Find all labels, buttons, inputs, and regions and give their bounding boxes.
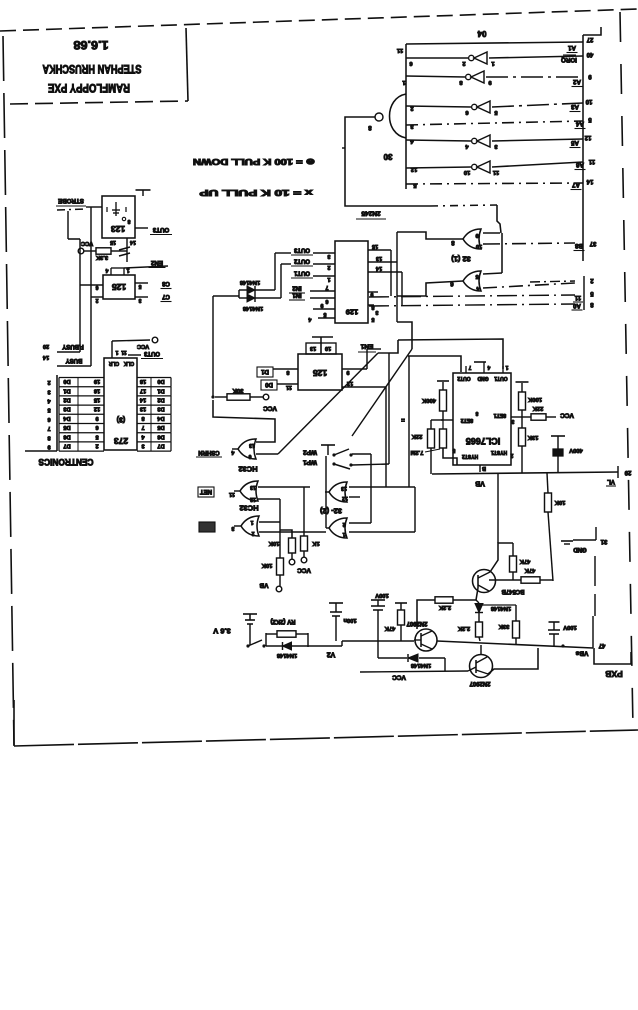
svg-text:RAMFLOPPY PXE: RAMFLOPPY PXE [48,81,130,93]
svg-text:14: 14 [130,239,136,245]
svg-text:2.2K: 2.2K [438,604,451,610]
svg-text:2: 2 [510,452,513,458]
wire 7.2M bottom to HYST2 [443,448,457,465]
svg-text:47K: 47K [524,567,535,573]
inverter U1-2 7404 [466,74,471,79]
svg-text:OUT2: OUT2 [457,375,471,381]
capacitor 100V mid [371,599,385,601]
title block frame [186,28,188,101]
IC U11 273 latch [104,358,137,450]
svg-text:(3): (3) [117,415,126,422]
wire U5c bottom input [259,531,326,533]
svg-text:A3: A3 [570,103,578,110]
U6 right rows [342,368,367,370]
svg-text:STEPHAN HRUSCHKA: STEPHAN HRUSCHKA [43,62,142,74]
svg-text:CSHRN: CSHRN [198,449,219,455]
wire U5b top input [258,486,310,488]
svg-text:27: 27 [586,36,593,42]
svg-text:2: 2 [327,264,330,270]
resistor 100K (SET1) [511,416,522,418]
vertical wire x80 [79,239,81,352]
resistor 47K collector [490,543,513,572]
wire pin37 B8 row to gate 32(1) input [486,243,575,244]
svg-text:D5: D5 [157,424,164,430]
svg-text:OUT3: OUT3 [152,226,169,233]
svg-text:A1: A1 [567,44,575,51]
connector stub rows right [583,276,585,310]
U6 top pin boxes [306,343,321,354]
IC U10 125 [103,275,135,299]
wire OUT1 of ICL7665 [398,339,503,369]
svg-text:400V: 400V [569,447,583,453]
svg-text:D1: D1 [63,387,70,393]
svg-text:20: 20 [43,343,49,349]
svg-text:D6: D6 [157,433,164,439]
svg-text:D3: D3 [157,406,164,412]
vertical wire OUT2 to 32-(2) inputs [408,356,410,487]
svg-text:1N4148: 1N4148 [276,652,297,658]
svg-text:273: 273 [114,436,128,446]
svg-text:D2: D2 [63,396,70,402]
svg-text:12: 12 [342,495,348,501]
svg-text:SET2: SET2 [461,417,474,423]
svg-text:1: 1 [250,519,253,525]
svg-text:x = 10 K PULL UP: x = 10 K PULL UP [199,188,313,197]
IC U9 123 monostable [102,196,135,238]
svg-text:47K: 47K [384,625,395,631]
svg-text:14: 14 [586,178,593,184]
svg-text:1: 1 [342,531,345,537]
svg-text:D4: D4 [157,415,165,421]
resistor 33K [480,604,516,606]
svg-text:CENTRONICS: CENTRONICS [39,457,94,467]
wire gate U3b output [397,281,463,296]
OR gate U3a 74HC32 (32 (1)) [463,229,481,249]
timing cap marks [119,247,130,250]
svg-text:3.3K: 3.3K [95,254,108,260]
main rail V2 [342,640,414,642]
svg-text:D7: D7 [157,442,164,448]
svg-text:30K: 30K [232,387,244,393]
IC U8 ICL7665 [453,373,511,465]
svg-text:3: 3 [375,309,378,315]
svg-text:D6: D6 [63,433,70,439]
svg-text:1N4148: 1N4148 [490,605,511,611]
wire CLK to OUT3 [128,354,141,356]
svg-text:A5: A5 [570,139,578,146]
wire base resistor to vertical [540,579,553,581]
svg-text:47: 47 [598,642,605,648]
wire U5a lower input to diagonal [256,453,278,455]
svg-text:2: 2 [95,442,98,448]
svg-text:9: 9 [320,302,323,308]
OR gate U7b 32-(2) [329,518,347,538]
svg-text:100V: 100V [563,624,577,630]
svg-text:HC32: HC32 [239,503,258,512]
svg-text:3: 3 [327,253,330,259]
svg-text:13: 13 [250,484,256,490]
svg-text:D5: D5 [63,424,70,430]
wire diode D1 to OUT3 row [274,253,276,290]
svg-text:2N245: 2N245 [361,210,381,217]
capacitor 400V [551,435,565,437]
svg-text:3: 3 [141,442,144,448]
resistor 7.2M [440,429,447,448]
resistor 30K [211,395,214,398]
resistor R 10K to VB [277,558,284,575]
diode D5 1N4148 [283,642,292,650]
OR gate U5c HC32 (WR) [241,516,259,536]
resistor 13K [519,428,526,446]
connector VBs pin 47 [592,616,594,648]
wire CLR to VCC [111,341,113,358]
trimmer RV (2K2) [266,633,277,635]
svg-text:BC547B: BC547B [501,588,525,594]
wire U7b top input [349,522,371,524]
ground tee above U8 [474,361,486,363]
svg-text:8: 8 [286,369,289,375]
svg-text:A0: A0 [573,302,581,308]
svg-text:VCC: VCC [136,343,149,349]
wire diodes common left [238,290,240,298]
wire tick [342,147,345,149]
svg-text:10K: 10K [261,562,272,568]
svg-text:8: 8 [475,410,478,416]
U4 lower-left pins [313,308,335,310]
wire U7a top input [349,486,415,488]
svg-text:19: 19 [94,378,100,384]
svg-text:RV (2K2): RV (2K2) [271,618,296,624]
svg-text:1: 1 [327,276,330,282]
svg-text:11: 11 [396,47,403,53]
resistor R 1K pull [303,487,305,536]
resistor 22K (SET2) [431,419,443,421]
svg-text:1K: 1K [311,540,319,546]
svg-text:6: 6 [248,453,251,459]
page border top (dashed) [0,9,638,31]
svg-text:13: 13 [310,345,316,351]
diode D2 1N4148 [239,297,247,299]
svg-text:WP2: WP2 [303,449,317,456]
svg-text:1: 1 [115,349,118,355]
svg-text:47K: 47K [519,558,530,564]
svg-text:2.2K: 2.2K [457,625,470,631]
vertical wire to switch row [388,353,390,464]
resistor 47K mid [395,602,407,604]
wire gate U3a output [397,232,463,239]
switch battery [246,644,249,647]
resistor 400K [441,419,453,421]
wire gate U3b lower input row [483,283,575,288]
diode D1 1N4148 [239,289,247,291]
IC U6 125 [298,354,342,390]
svg-text:2N2907: 2N2907 [406,620,428,626]
transistor Q2 2N2907 (series) [415,629,437,651]
U10 top pins [110,268,112,275]
U8 bottom pin VB [479,465,481,472]
OR gate U3b 74HC32 [463,271,481,291]
CENTRONICS connector [56,375,58,451]
svg-text:SET1: SET1 [494,412,507,418]
capacitor 100n left [329,602,343,604]
svg-text:125: 125 [112,282,126,292]
svg-text:13: 13 [376,255,382,261]
wire gate U5b input chain down [279,499,281,558]
svg-text:C8: C8 [162,280,170,286]
svg-text:STROBE: STROBE [58,197,84,204]
svg-text:VCC: VCC [392,674,406,681]
svg-text:9: 9 [370,291,373,297]
resistor 47K base [489,579,521,581]
wire row A4 direct (dash-dot) [406,121,583,125]
U10 right rows C8 C7 [135,282,148,284]
svg-text:18: 18 [140,378,146,384]
svg-text:5: 5 [138,283,141,289]
svg-text:3: 3 [511,418,514,424]
svg-text:9: 9 [475,232,478,238]
U4 right side pins and wires [368,249,391,251]
diode D4 1N4148 bypass [377,641,379,658]
svg-text:13: 13 [140,406,146,412]
svg-text:10K: 10K [554,499,565,505]
inverter U1-4 7404 [472,138,477,143]
svg-text:D2: D2 [157,396,164,402]
svg-text:HYST2: HYST2 [462,453,478,459]
svg-text:10: 10 [325,345,331,351]
svg-text:6: 6 [95,424,98,430]
resistor 10K below rail [547,473,548,493]
svg-text:VB: VB [475,479,485,486]
vertical wire WP row [385,387,387,487]
svg-text:14: 14 [375,265,382,271]
svg-text:VL: VL [607,478,615,484]
svg-text:123: 123 [111,224,125,234]
connector edge (bus) [582,35,584,261]
svg-text:HYST1: HYST1 [491,449,507,455]
svg-text:129: 129 [346,307,359,316]
svg-text:A6: A6 [575,161,583,168]
svg-text:1N4148: 1N4148 [410,662,431,668]
svg-text:IN2: IN2 [292,284,302,290]
wire U7b bottom input [349,531,415,533]
svg-text:125: 125 [313,368,327,378]
page border bottom [14,730,638,746]
net rows OUT3 OUT2 OUT1 at U4 [313,252,335,254]
NAND U2 7430 body [390,94,407,138]
svg-text:6: 6 [47,416,50,422]
273 data rows left (D0..D7) [59,377,104,379]
svg-text:30: 30 [383,152,392,161]
transistor Q1 BC547B [473,570,496,593]
wire U5c top input [259,521,280,523]
svg-text:29: 29 [624,469,631,475]
svg-text:D4: D4 [63,415,71,421]
wire from U3b output down to OUT-chain [396,296,398,322]
svg-text:11: 11 [286,384,292,390]
resistor 22K to VCC [531,414,546,420]
svg-text:8: 8 [141,415,144,421]
svg-text:HC32: HC32 [238,464,257,473]
page border left (dashed) [3,36,14,745]
svg-text:12: 12 [411,166,417,172]
ground GND pin 31 [561,540,573,542]
svg-text:12: 12 [250,496,256,502]
svg-text:8: 8 [371,304,374,310]
svg-text:4: 4 [487,364,490,370]
svg-text:7: 7 [141,424,144,430]
svg-text:EN2: EN2 [150,259,163,266]
svg-text:OUT3: OUT3 [143,350,160,356]
svg-text:D0: D0 [265,381,273,387]
svg-text:7: 7 [468,364,471,370]
diagonal wire to HC32 area [352,349,412,436]
svg-text:VCC: VCC [263,405,277,412]
svg-text:OUT1: OUT1 [494,375,508,381]
inverter U1-1 7404 [469,55,474,60]
vertical wires right of U4 [390,250,392,296]
svg-text:6: 6 [325,298,328,304]
wire 30K node to HC32 gate A input [213,400,275,442]
svg-text:D7: D7 [63,442,70,448]
inverter U1-5 7404 [472,164,477,169]
svg-text:22K: 22K [411,433,422,439]
svg-text:17: 17 [140,387,146,393]
svg-text:15: 15 [94,396,100,402]
wire Q1 emitter down [476,588,478,600]
svg-text:VCC: VCC [560,412,574,419]
svg-text:32- (2): 32- (2) [319,506,342,515]
svg-text:11: 11 [121,349,127,355]
wires P.BUSY BUSY [57,351,80,353]
long wire row to connector (A0) [369,304,575,306]
IC U4 (129) [335,241,368,323]
wire row A7 direct (dash-dot) [406,183,583,184]
svg-text:B: B [482,465,486,471]
long vertical wire x68 [67,211,69,239]
svg-text:4: 4 [105,267,108,273]
svg-text:2N2907: 2N2907 [469,680,491,686]
resistor 2.2K horizontal [435,597,453,603]
svg-text:3: 3 [231,525,234,531]
svg-text:13: 13 [249,442,255,448]
svg-text:2: 2 [462,60,465,66]
svg-text:WP1: WP1 [303,459,317,466]
svg-text:NET: NET [200,488,212,494]
svg-text:B8: B8 [574,242,582,249]
svg-text:10K: 10K [268,540,279,546]
connector segment below GND [594,556,596,616]
svg-text:11: 11 [574,294,581,300]
svg-text:31: 31 [600,538,607,544]
svg-text:100K: 100K [527,396,542,402]
svg-text:GND: GND [573,546,587,552]
capacitor 100V right [549,621,560,623]
svg-text:D1: D1 [261,368,269,374]
wire NAND output to 32(1) gates [345,117,430,206]
wire joining gate inputs [483,232,500,234]
svg-text:PXB: PXB [605,669,622,679]
svg-text:16: 16 [94,387,100,393]
svg-text:GND: GND [477,375,489,381]
svg-text:6: 6 [95,284,98,290]
svg-text:D3: D3 [63,406,70,412]
svg-text:10: 10 [585,98,592,104]
VB rail [432,472,618,474]
svg-text:5: 5 [475,273,478,279]
VCC feed wire [444,658,446,671]
svg-text:15: 15 [110,239,116,245]
svg-text:11: 11 [588,158,595,164]
long vertical wire x91 [90,207,92,366]
U10 left rows [80,284,103,286]
svg-text:OUT3: OUT3 [293,246,310,252]
NAND U2 7430 input bar [405,44,407,189]
connector pin 29 / VL [617,466,619,478]
svg-text:40: 40 [586,51,593,57]
svg-text:D0: D0 [63,378,70,384]
svg-text:7: 7 [47,425,50,431]
svg-text:CLK: CLK [123,360,134,366]
svg-text:400K: 400K [421,397,436,403]
svg-text:1N4148: 1N4148 [242,305,263,311]
wire gate outputs vertical [325,456,327,528]
svg-text:7.2M: 7.2M [410,449,423,455]
svg-text:IN1: IN1 [292,291,302,297]
svg-text:8: 8 [127,218,130,224]
svg-text:7: 7 [325,284,328,290]
VCC tee at U9 [136,189,151,191]
switch WP1 [332,462,335,465]
svg-text:10: 10 [476,243,482,249]
svg-text:C7: C7 [162,293,170,299]
inverter U1-3 7404 [472,104,477,109]
svg-text:⊗ = 100 K PULL DOWN: ⊗ = 100 K PULL DOWN [193,157,315,166]
svg-text:IORQ: IORQ [561,56,577,63]
svg-text:1: 1 [505,364,508,370]
svg-text:3.6 V: 3.6 V [213,626,231,635]
diode D3 1N4148 vertical [476,600,479,603]
svg-text:ICL7665: ICL7665 [466,436,501,446]
svg-text:=: = [401,416,405,422]
switch WP2 [332,453,335,456]
svg-text:VB: VB [259,582,268,589]
U9 internal cap [115,202,117,216]
273 data rows right (D0..D7) [137,377,171,379]
svg-text:12: 12 [94,406,100,412]
svg-text:D0: D0 [157,378,164,384]
VCC tee for switches [321,444,335,446]
svg-text:2: 2 [47,379,50,385]
OR gate U5b HC32 (NET) [240,481,258,501]
svg-text:5: 5 [371,316,374,322]
svg-text:12: 12 [584,134,591,140]
svg-text:3: 3 [138,297,141,303]
svg-text:14: 14 [42,354,49,360]
svg-text:2: 2 [251,530,254,536]
page border right (dashed) [620,12,633,728]
stub U7a bottom input [349,496,360,498]
svg-text:10: 10 [464,169,470,175]
svg-text:11: 11 [492,169,499,175]
svg-text:A7: A7 [571,181,579,188]
svg-text:22K: 22K [532,405,543,411]
svg-text:9: 9 [346,369,349,375]
svg-text:100V: 100V [375,592,389,598]
svg-text:11: 11 [229,491,235,497]
svg-text:3: 3 [47,388,50,394]
resistor 3.3K with VCC [78,248,84,254]
svg-text:5: 5 [452,447,455,453]
